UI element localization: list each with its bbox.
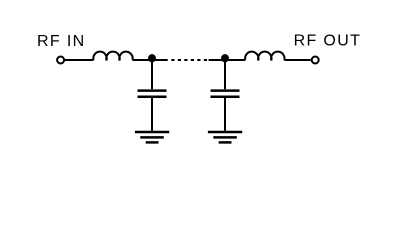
inductor L1 <box>93 52 132 61</box>
wire solid stub to node B <box>209 59 225 61</box>
terminal J1 (RF IN port circle) <box>57 57 64 64</box>
wire node A solid stub <box>152 59 168 61</box>
svg-text:RF OUT: RF OUT <box>294 32 362 49</box>
wire dashed continuation (omitted sections) <box>171 59 207 61</box>
node B junction dot <box>221 54 229 62</box>
wire node A down to C1 <box>151 60 153 89</box>
inductor L2 <box>245 52 284 61</box>
wire C1 to ground <box>151 98 153 131</box>
ground (below C1) <box>135 132 169 142</box>
wire C2 to ground <box>224 98 226 131</box>
wire L1 to node A <box>133 59 153 61</box>
wire J1 to L1 <box>65 59 94 61</box>
capacitor C1 <box>138 91 167 97</box>
ground (below C2) <box>208 132 242 142</box>
terminal J2 (RF OUT port circle) <box>312 57 319 64</box>
node A junction dot <box>148 54 156 62</box>
svg-text:RF IN: RF IN <box>37 33 86 50</box>
capacitor C2 <box>211 91 240 97</box>
wire node B down to C2 <box>224 60 226 89</box>
wire L2 to terminal J2 <box>284 59 310 61</box>
wire node B to L2 <box>225 59 245 61</box>
